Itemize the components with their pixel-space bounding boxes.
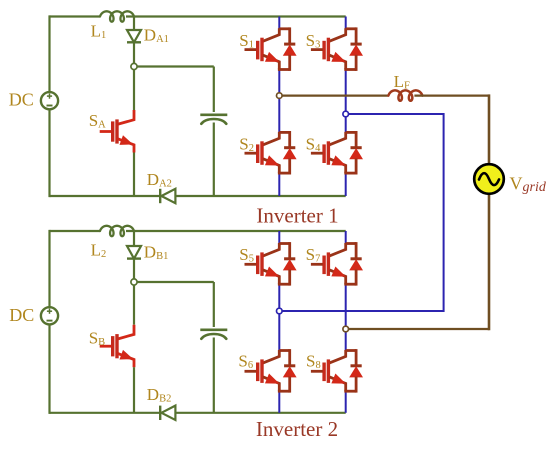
svg-text:S4: S4 bbox=[306, 135, 321, 155]
svg-text:S6: S6 bbox=[238, 352, 253, 372]
svg-text:DC: DC bbox=[9, 305, 34, 325]
svg-text:DA1: DA1 bbox=[144, 26, 169, 46]
svg-text:SB: SB bbox=[89, 329, 105, 349]
svg-text:SA: SA bbox=[89, 111, 106, 131]
svg-text:DB2: DB2 bbox=[147, 385, 172, 405]
svg-text:S2: S2 bbox=[239, 135, 254, 155]
svg-text:S1: S1 bbox=[239, 31, 254, 51]
svg-text:S5: S5 bbox=[239, 245, 254, 265]
svg-text:DB1: DB1 bbox=[144, 242, 169, 262]
svg-text:S3: S3 bbox=[306, 31, 321, 51]
svg-text:Inverter 1: Inverter 1 bbox=[256, 204, 338, 228]
svg-text:DC: DC bbox=[9, 90, 34, 110]
svg-text:DA2: DA2 bbox=[147, 170, 172, 190]
svg-text:L2: L2 bbox=[91, 240, 107, 259]
svg-text:S7: S7 bbox=[306, 245, 321, 265]
svg-text:L1: L1 bbox=[91, 21, 107, 41]
svg-text:Inverter 2: Inverter 2 bbox=[256, 417, 338, 441]
svg-text:LF: LF bbox=[394, 72, 410, 92]
svg-text:S8: S8 bbox=[306, 352, 321, 372]
svg-text:Vgrid: Vgrid bbox=[510, 174, 547, 196]
